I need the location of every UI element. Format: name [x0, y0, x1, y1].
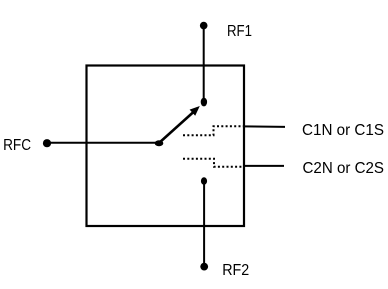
svg-text:C2N or C2S: C2N or C2S — [303, 160, 385, 177]
wire RF1 to top contact — [203, 26, 205, 101]
wire control C1 stub — [244, 125, 286, 128]
svg-text:RF1: RF1 — [227, 23, 252, 40]
control line C1 dotted — [183, 126, 244, 135]
svg-text:C1N or C1S: C1N or C1S — [302, 122, 384, 139]
node RF2 terminal — [200, 263, 208, 271]
control line C2 dotted — [183, 159, 244, 167]
switch arm arrowhead — [190, 106, 200, 116]
svg-text:RFC: RFC — [3, 137, 31, 154]
wire bottom contact to RF2 — [203, 182, 205, 266]
switch arm SW1 — [159, 111, 195, 143]
switch body box — [87, 66, 245, 227]
svg-text:RF2: RF2 — [222, 262, 249, 279]
node switch pivot — [155, 140, 164, 146]
node bottom throw contact — [201, 177, 207, 185]
wire RFC to pivot — [47, 142, 159, 144]
node RFC terminal — [43, 139, 51, 147]
node RF1 terminal — [200, 22, 208, 30]
wire control C2 stub — [244, 165, 285, 167]
node top throw contact — [201, 98, 207, 107]
